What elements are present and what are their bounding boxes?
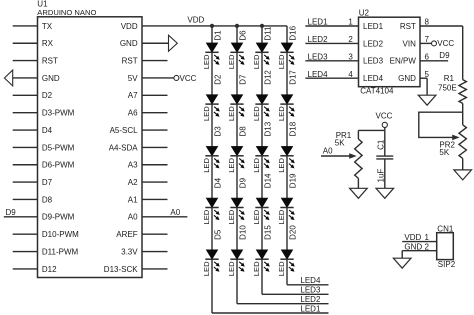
node label LED3 xyxy=(308,53,329,62)
svg-text:D9: D9 xyxy=(238,177,247,188)
wire U1 pin D10-PWM xyxy=(13,233,38,235)
svg-text:D8: D8 xyxy=(42,195,53,204)
wire U1 pin TX xyxy=(13,25,38,27)
power symbol VCC (PR1/C1 node) xyxy=(376,112,393,131)
LED D1 xyxy=(202,30,222,69)
wire U1 pin 3.3V xyxy=(142,251,168,253)
LED D4 xyxy=(202,177,222,224)
LED D6 xyxy=(227,30,247,69)
wire net LED4 bus xyxy=(287,284,329,286)
svg-text:GND: GND xyxy=(42,74,60,83)
wire net LED2 bus xyxy=(237,303,329,305)
LED D19 xyxy=(277,173,297,225)
svg-text:D12: D12 xyxy=(263,70,272,85)
svg-text:3.3V: 3.3V xyxy=(121,247,138,256)
wire U1 pin A7 xyxy=(142,94,168,96)
svg-text:LED2: LED2 xyxy=(363,39,384,48)
wire net A0 from U1 A0 pin xyxy=(142,216,187,218)
LED D2 xyxy=(202,74,222,121)
svg-text:A7: A7 xyxy=(128,91,138,100)
svg-text:1uF: 1uF xyxy=(376,169,385,183)
pin number 8 xyxy=(425,18,430,27)
value label PR1 5K xyxy=(335,131,352,147)
svg-text:D4: D4 xyxy=(213,177,222,188)
LED D11 xyxy=(252,26,272,69)
svg-text:D6-PWM: D6-PWM xyxy=(42,161,75,170)
wire net D9 to U1 D9-PWM xyxy=(4,216,38,218)
ground symbol (C1) xyxy=(376,188,394,198)
svg-text:2: 2 xyxy=(348,35,353,44)
svg-text:5: 5 xyxy=(425,70,430,79)
svg-text:D15: D15 xyxy=(263,225,272,240)
svg-text:D11: D11 xyxy=(263,26,272,41)
wire U1 pin A3 xyxy=(142,164,168,166)
wire U1 pin D6-PWM xyxy=(13,164,38,166)
svg-text:D17: D17 xyxy=(288,70,297,85)
pin number 1 xyxy=(348,18,353,27)
ground symbol (CN1) xyxy=(393,258,411,268)
svg-text:RST: RST xyxy=(122,57,138,66)
node label VDD xyxy=(187,15,204,24)
wire U1 pin RX xyxy=(13,42,38,44)
wire U1 pin A1 xyxy=(142,198,168,200)
svg-text:D19: D19 xyxy=(288,173,297,188)
svg-text:D3-PWM: D3-PWM xyxy=(42,109,75,118)
svg-text:RST: RST xyxy=(400,22,416,31)
svg-text:D10-PWM: D10-PWM xyxy=(42,230,79,239)
wire U2 RST pin 8 to R1 xyxy=(420,26,463,80)
node label D9 xyxy=(439,51,450,60)
svg-text:D12: D12 xyxy=(42,265,57,274)
wire U1 pin D8 xyxy=(13,198,38,200)
svg-text:D18: D18 xyxy=(288,121,297,136)
svg-text:GND: GND xyxy=(120,39,138,48)
pin number 5 xyxy=(425,70,430,79)
svg-text:LED4: LED4 xyxy=(300,276,321,285)
LED D14 xyxy=(252,173,272,225)
svg-text:1: 1 xyxy=(348,18,353,27)
svg-text:1: 1 xyxy=(425,233,430,242)
svg-text:D14: D14 xyxy=(263,173,272,188)
wire U1 pin RST xyxy=(142,60,168,62)
svg-text:A0: A0 xyxy=(128,213,138,222)
svg-text:D9-PWM: D9-PWM xyxy=(42,213,75,222)
svg-text:AREF: AREF xyxy=(116,230,137,239)
wire U1 pin D4 xyxy=(13,129,38,131)
wire R1 to PR2 junction and wiper bypass xyxy=(419,112,463,140)
pin number 2 xyxy=(348,35,353,44)
LED D5 xyxy=(202,229,222,276)
junction dot VDD rail col1 xyxy=(210,24,214,28)
svg-text:LED3: LED3 xyxy=(363,57,384,66)
LED D3 xyxy=(202,126,222,173)
wire U1 pin D5-PWM xyxy=(13,146,38,148)
wire U1 pin D12 xyxy=(13,268,38,270)
node label LED3 xyxy=(300,286,321,295)
node label LED4 xyxy=(308,70,329,79)
svg-text:2: 2 xyxy=(425,242,430,251)
IC U2 CAT4104 xyxy=(359,8,421,95)
svg-text:LED4: LED4 xyxy=(363,74,384,83)
svg-text:D2: D2 xyxy=(42,91,53,100)
node label LED1 xyxy=(308,18,329,27)
svg-text:3: 3 xyxy=(348,53,353,62)
svg-text:CN1: CN1 xyxy=(437,225,454,234)
node label LED1 xyxy=(300,304,321,313)
wire net A0 to PR1 wiper xyxy=(321,153,357,159)
wire U2 GND pin 5 xyxy=(420,78,427,95)
svg-text:VDD: VDD xyxy=(404,233,421,242)
svg-text:VCC: VCC xyxy=(437,39,454,48)
svg-text:D5-PWM: D5-PWM xyxy=(42,143,75,152)
svg-text:LED1: LED1 xyxy=(363,22,384,31)
node label D9 xyxy=(6,208,17,217)
svg-text:750E: 750E xyxy=(438,84,457,93)
svg-text:C1: C1 xyxy=(376,139,385,150)
wire U1 pin D13-SCK xyxy=(142,268,168,270)
wire U1 pin A2 xyxy=(142,181,168,183)
svg-text:D16: D16 xyxy=(288,25,297,40)
ground symbol (U2 pin 5) xyxy=(418,95,436,105)
value label PR2 5K xyxy=(439,141,455,158)
svg-text:LED2: LED2 xyxy=(300,295,321,304)
svg-text:D5: D5 xyxy=(213,229,222,240)
node label LED2 xyxy=(308,35,329,44)
svg-text:D9: D9 xyxy=(439,51,450,60)
wire U1 pin RST xyxy=(13,60,38,62)
wire U1 pin D11-PWM xyxy=(13,251,38,253)
svg-text:RX: RX xyxy=(42,39,54,48)
pin number 1 xyxy=(425,233,430,242)
IC U1 ARDUINO NANO xyxy=(37,0,142,278)
wire net LED3 bus xyxy=(262,293,329,295)
svg-text:LED3: LED3 xyxy=(300,286,321,295)
svg-text:VCC: VCC xyxy=(180,74,197,83)
svg-text:EN/PW: EN/PW xyxy=(390,57,417,66)
svg-text:D6: D6 xyxy=(238,30,247,41)
svg-text:VIN: VIN xyxy=(403,39,417,48)
svg-text:D1: D1 xyxy=(213,30,222,41)
LED D12 xyxy=(252,70,272,122)
node label A0 xyxy=(323,147,333,156)
svg-text:D13-SCK: D13-SCK xyxy=(104,265,138,274)
svg-text:A0: A0 xyxy=(323,147,333,156)
svg-text:A5-SCL: A5-SCL xyxy=(110,126,139,135)
wire U1 pin AREF xyxy=(142,233,168,235)
wire LED column 2 xyxy=(236,26,238,304)
svg-text:LED2: LED2 xyxy=(308,35,329,44)
svg-text:U2: U2 xyxy=(359,8,370,17)
svg-text:LED1: LED1 xyxy=(300,304,321,313)
svg-text:5K: 5K xyxy=(439,148,449,157)
svg-text:RST: RST xyxy=(42,57,58,66)
LED D13 xyxy=(252,121,272,173)
svg-text:D13: D13 xyxy=(263,121,272,136)
resistor R1 xyxy=(459,80,466,125)
svg-text:5K: 5K xyxy=(335,139,345,148)
wire net VDD to CN1 pin 1 xyxy=(402,241,437,243)
value label R1 750E xyxy=(438,74,457,93)
node label GND xyxy=(404,242,422,251)
svg-text:D11-PWM: D11-PWM xyxy=(42,247,79,256)
ground symbol (PR2) xyxy=(454,170,472,180)
svg-text:5V: 5V xyxy=(128,74,138,83)
pin number 7 xyxy=(425,35,430,44)
svg-text:6: 6 xyxy=(425,52,430,61)
LED D8 xyxy=(227,126,247,173)
svg-text:A2: A2 xyxy=(128,178,138,187)
svg-text:D4: D4 xyxy=(42,126,53,135)
LED D9 xyxy=(227,177,247,224)
pin number 3 xyxy=(348,53,353,62)
wire VDD rail xyxy=(142,25,287,27)
wire U1 pin A4-SDA xyxy=(142,146,168,148)
capacitor C1 1uF xyxy=(376,139,393,188)
LED D7 xyxy=(227,74,247,121)
ground symbol (PR1) xyxy=(350,188,368,198)
wire U1 pin D2 xyxy=(13,94,38,96)
svg-text:D20: D20 xyxy=(288,225,297,240)
svg-text:R1: R1 xyxy=(444,74,455,83)
svg-text:A4-SDA: A4-SDA xyxy=(109,143,139,152)
svg-text:A3: A3 xyxy=(128,161,138,170)
svg-text:ARDUINO NANO: ARDUINO NANO xyxy=(37,8,96,17)
svg-text:GND: GND xyxy=(404,242,422,251)
wire U1 pin A6 xyxy=(142,112,168,114)
svg-text:D3: D3 xyxy=(213,126,222,137)
wire U1 pin A5-SCL xyxy=(142,129,168,131)
svg-text:VDD: VDD xyxy=(187,15,204,24)
svg-text:VCC: VCC xyxy=(376,112,393,121)
node label VDD xyxy=(404,233,421,242)
svg-text:D8: D8 xyxy=(238,126,247,137)
wire net LED2 to U2 pin 2 xyxy=(305,42,358,44)
potentiometer PR1 xyxy=(355,130,362,188)
port arrow GND (left, input) xyxy=(4,70,37,86)
svg-text:D9: D9 xyxy=(6,208,17,217)
svg-text:7: 7 xyxy=(425,35,430,44)
svg-text:D2: D2 xyxy=(213,74,222,85)
port arrow GND (right, output) xyxy=(142,35,177,51)
wire net LED4 to U2 pin 4 xyxy=(305,77,358,79)
LED D10 xyxy=(227,225,247,277)
svg-text:D10: D10 xyxy=(238,225,247,240)
svg-text:SIP2: SIP2 xyxy=(438,260,456,269)
potentiometer PR2 xyxy=(459,125,466,170)
svg-text:A1: A1 xyxy=(128,195,138,204)
power symbol VCC on U2 VIN pin 7 xyxy=(420,39,454,48)
svg-text:8: 8 xyxy=(425,18,430,27)
pin number 2 xyxy=(425,242,430,251)
junction dot VDD rail col2 xyxy=(235,24,239,28)
svg-text:4: 4 xyxy=(348,70,353,79)
LED D15 xyxy=(252,225,272,277)
svg-text:TX: TX xyxy=(42,22,53,31)
svg-text:VDD: VDD xyxy=(121,22,138,31)
LED D18 xyxy=(277,121,297,173)
wire net LED1 bus xyxy=(212,312,329,314)
wire net LED1 to U2 pin 1 xyxy=(305,25,358,27)
wire LED column 1 xyxy=(211,26,213,313)
svg-text:D7: D7 xyxy=(42,178,53,187)
svg-text:LED4: LED4 xyxy=(308,70,329,79)
LED D17 xyxy=(277,70,297,122)
pin number 4 xyxy=(348,70,353,79)
wire VCC node to PR1 top and C1 xyxy=(358,130,384,156)
svg-text:CAT4104: CAT4104 xyxy=(360,87,394,96)
power symbol VCC on U1 5V pin xyxy=(142,74,197,83)
svg-text:A6: A6 xyxy=(128,109,138,118)
pin number 6 xyxy=(425,52,430,61)
node label LED2 xyxy=(300,295,321,304)
node label LED4 xyxy=(300,276,321,285)
svg-text:LED3: LED3 xyxy=(308,53,329,62)
svg-text:D7: D7 xyxy=(238,74,247,85)
wire LED column 4 xyxy=(286,26,288,285)
wire net LED3 to U2 pin 3 xyxy=(305,60,358,62)
svg-text:A0: A0 xyxy=(170,208,180,217)
svg-text:GND: GND xyxy=(398,74,416,83)
svg-text:LED1: LED1 xyxy=(308,18,329,27)
wire net D9 to U2 EN/PW pin 6 xyxy=(420,60,448,62)
wire U1 pin D3-PWM xyxy=(13,112,38,114)
node label A0 xyxy=(170,208,180,217)
junction dot VDD rail col3 xyxy=(260,24,264,28)
wire U1 pin D7 xyxy=(13,181,38,183)
wire LED column 3 xyxy=(261,26,263,294)
LED D16 xyxy=(277,25,297,69)
wire net GND to CN1 pin 2 xyxy=(402,251,437,259)
connector CN1 SIP2 xyxy=(437,225,456,269)
LED D20 xyxy=(277,225,297,277)
